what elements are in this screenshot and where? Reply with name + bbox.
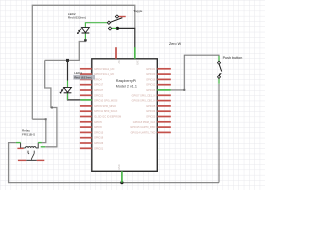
svg-text:GPIO3 SCL1_I2C: GPIO3 SCL1_I2C	[94, 72, 114, 76]
svg-text:5V: 5V	[117, 61, 120, 64]
pin GPIO24 connected (green)	[157, 89, 171, 91]
svg-text:GPIO18 PWM_CLK: GPIO18 PWM_CLK	[133, 120, 156, 124]
wire: toggle throw to Pi 3V3 top pin	[117, 28, 134, 47]
relay armature lever	[32, 153, 35, 160]
wire	[45, 60, 57, 146]
relay contact hooks	[28, 151, 29, 154]
svg-text:GPIO13: GPIO13	[94, 130, 104, 134]
wire: LED2 cathode staircase down to relay right pin 2	[45, 40, 86, 60]
relay NO contact red stub	[37, 159, 45, 161]
svg-text:Red (633nm): Red (633nm)	[74, 76, 92, 80]
pin labels right	[130, 67, 156, 135]
toggle throw B terminal + green stub	[112, 27, 117, 29]
svg-text:GPIO21: GPIO21	[146, 67, 156, 71]
svg-text:Zero W: Zero W	[169, 42, 182, 46]
svg-text:GPIO5: GPIO5	[94, 120, 102, 124]
junction node at ground bus / Pi GND	[120, 181, 123, 184]
relay NC contact red stub	[18, 159, 26, 161]
svg-text:GPIO17: GPIO17	[94, 83, 104, 87]
svg-text:GPIO21: GPIO21	[94, 146, 104, 150]
wire: relay left pin to ground bus	[9, 143, 219, 183]
svg-text:GPIO27: GPIO27	[94, 88, 104, 92]
relay pin common green stub	[41, 146, 46, 148]
LED2 emission arrows	[79, 29, 82, 32]
svg-text:ID_SD I2C ID EEPROM: ID_SD I2C ID EEPROM	[94, 115, 121, 119]
LED2 cathode bar	[82, 32, 90, 34]
svg-text:RaspberryPi: RaspberryPi	[116, 79, 136, 83]
button lever	[219, 63, 222, 72]
IC U1 RaspberryPi body	[92, 59, 158, 172]
svg-text:3V3: 3V3	[136, 61, 139, 66]
button bottom terminal green	[218, 78, 220, 84]
LED2 triangle	[82, 28, 90, 33]
svg-text:GPIO10 SPI0_MOSI: GPIO10 SPI0_MOSI	[94, 99, 118, 103]
pin GPIO10 connected (green) wire from LED1	[68, 93, 81, 100]
wire: frame net from relay area up over the top to toggle	[32, 5, 135, 119]
svg-text:Red (633nm): Red (633nm)	[68, 15, 86, 19]
svg-text:GPIO23: GPIO23	[146, 115, 156, 119]
svg-text:GPIO8 SPI0_CE0_N: GPIO8 SPI0_CE0_N	[132, 99, 156, 103]
relay pin 1 green stub	[16, 142, 21, 144]
LED2 cathode stub	[84, 33, 86, 39]
pin 5V top (red)	[115, 47, 117, 59]
button top terminal green	[218, 56, 220, 62]
svg-text:FRS1B-S: FRS1B-S	[22, 132, 35, 136]
relay pin 16 green stub	[38, 142, 42, 144]
toggle lever	[110, 18, 122, 23]
relay K1	[16, 128, 45, 160]
svg-text:Model 2 v1.1: Model 2 v1.1	[116, 85, 137, 89]
relay unconnected pin red stub	[17, 147, 23, 149]
svg-text:GPIO20: GPIO20	[146, 72, 156, 76]
wire bendpoint nub	[51, 107, 53, 109]
junction node at toggle throw	[116, 27, 119, 30]
push button S2	[217, 56, 242, 84]
svg-text:GPIO4: GPIO4	[94, 77, 102, 81]
svg-text:GND: GND	[118, 164, 121, 170]
svg-text:GPIO6: GPIO6	[94, 125, 102, 129]
svg-text:GPIO24: GPIO24	[146, 109, 156, 113]
svg-text:GPIO12: GPIO12	[146, 83, 156, 87]
pin 3V3 top (green)	[134, 47, 136, 59]
toggle switch S1	[107, 9, 142, 30]
svg-text:GPIO11 SPI0_SCLK: GPIO11 SPI0_SCLK	[94, 109, 118, 113]
wire: GPIO24 to push button top	[171, 55, 219, 90]
svg-text:GPIO26: GPIO26	[146, 88, 156, 92]
wire bendpoint nub	[45, 118, 47, 120]
svg-text:GPIO15 UART0_RXD: GPIO15 UART0_RXD	[130, 125, 155, 129]
junction node at LED1 top	[66, 59, 69, 62]
svg-text:GPIO25: GPIO25	[146, 104, 156, 108]
wire: push button net down to bus	[218, 84, 220, 183]
svg-text:GPIO16: GPIO16	[146, 77, 156, 81]
LED1	[60, 60, 95, 93]
pin stubs left (red unconnected)	[80, 69, 92, 149]
svg-text:GPIO14 UART0_TXD: GPIO14 UART0_TXD	[131, 130, 156, 134]
wire: LED2 anode to toggle common (green)	[85, 23, 107, 28]
wire bendpoint nub	[183, 89, 185, 91]
relay coil	[26, 147, 36, 148]
wire: junction to LED1 anode	[67, 60, 69, 80]
pin GND bottom (green)	[121, 171, 123, 182]
relay coil right lead	[36, 143, 38, 148]
svg-text:LED1: LED1	[74, 71, 82, 75]
svg-text:GPIO9 SPI0_MISO: GPIO9 SPI0_MISO	[94, 104, 116, 108]
LED1 emission arrows	[61, 88, 64, 91]
pin stubs right	[157, 69, 171, 133]
wire: frame net branch to relay right pin 1	[32, 119, 46, 142]
svg-text:GPIO19: GPIO19	[94, 136, 104, 140]
svg-text:Push button: Push button	[223, 56, 243, 60]
button terminal diamonds	[217, 61, 220, 64]
relay bottom common rail	[26, 159, 37, 161]
LED1 cathode bar	[64, 92, 72, 94]
svg-text:Toggle: Toggle	[133, 9, 142, 13]
svg-text:GPIO26: GPIO26	[94, 141, 104, 145]
toggle throw A terminal + red stub	[118, 16, 125, 18]
LED2	[68, 12, 108, 42]
LED1 triangle	[64, 87, 72, 92]
pin labels left	[94, 67, 121, 151]
toggle common terminal	[107, 21, 110, 24]
svg-text:GPIO7 SPI0_CE1_N: GPIO7 SPI0_CE1_N	[132, 93, 156, 97]
svg-text:GPIO2 SDA1_I2C: GPIO2 SDA1_I2C	[94, 67, 115, 71]
relay coil left lead	[21, 143, 26, 148]
svg-text:GPIO22: GPIO22	[94, 93, 104, 97]
